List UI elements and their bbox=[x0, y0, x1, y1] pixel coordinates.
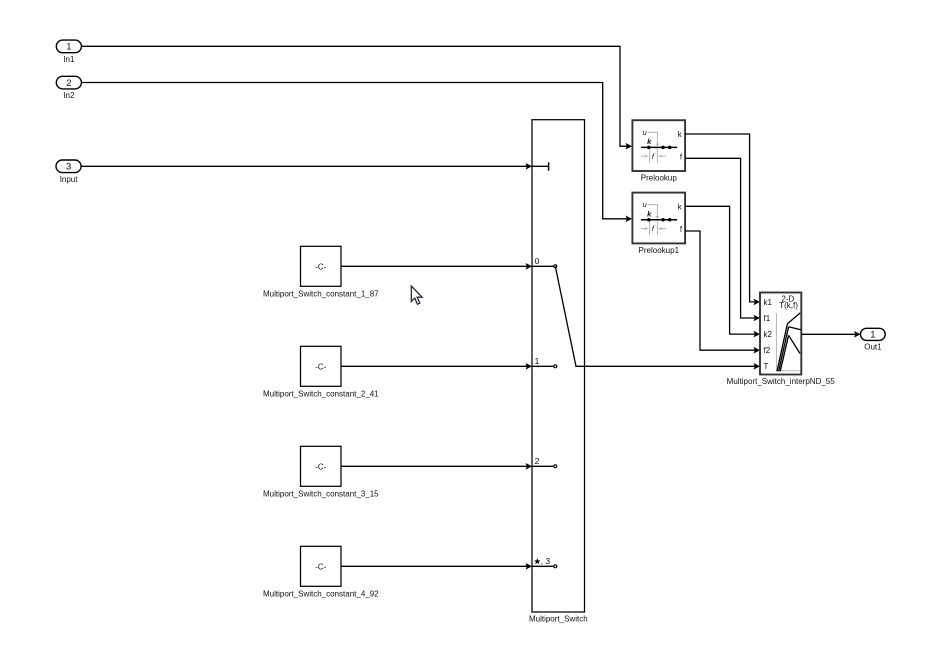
inport Input bbox=[56, 160, 81, 184]
svg-text:3: 3 bbox=[66, 162, 71, 173]
svg-text:f2: f2 bbox=[764, 346, 771, 355]
wire interpND output to Out1 bbox=[801, 331, 860, 338]
constant Multiport_Switch_constant_1_87 bbox=[263, 246, 379, 298]
block Multiport_Switch_interpND_55 bbox=[727, 293, 836, 387]
inport In2 bbox=[56, 76, 81, 100]
svg-text:Input: Input bbox=[60, 175, 79, 184]
block Prelookup bbox=[632, 120, 685, 182]
wire constant3 to switch port 2 bbox=[341, 463, 532, 470]
svg-text:1: 1 bbox=[870, 330, 875, 341]
svg-text:1: 1 bbox=[535, 356, 540, 366]
interpND port labels and title bbox=[764, 294, 799, 371]
svg-text:In2: In2 bbox=[63, 91, 75, 100]
wire Prelookup1 f to interpND f2 bbox=[685, 231, 760, 354]
svg-text:f1: f1 bbox=[764, 314, 771, 323]
svg-text:-C-: -C- bbox=[315, 362, 326, 371]
wire Prelookup f to interpND f1 bbox=[685, 158, 760, 321]
constant Multiport_Switch_constant_3_15 bbox=[263, 446, 379, 498]
inport In1 bbox=[56, 40, 81, 64]
switch data port *,3 marker bbox=[532, 556, 557, 568]
svg-text:In1: In1 bbox=[63, 55, 75, 64]
wire Prelookup k to interpND k1 bbox=[685, 134, 760, 305]
block Multiport_Switch bbox=[529, 120, 588, 624]
svg-text:Multiport_Switch_constant_3_15: Multiport_Switch_constant_3_15 bbox=[263, 489, 379, 498]
svg-text:-C-: -C- bbox=[315, 262, 326, 271]
svg-text:Multiport_Switch_constant_1_87: Multiport_Switch_constant_1_87 bbox=[263, 289, 379, 298]
switch data port 2 marker bbox=[532, 456, 557, 468]
svg-text:1: 1 bbox=[66, 42, 71, 53]
svg-text:Prelookup1: Prelookup1 bbox=[639, 246, 680, 255]
svg-text:-C-: -C- bbox=[315, 562, 326, 571]
switch selection diagonal to output bbox=[555, 266, 584, 366]
svg-text:2: 2 bbox=[66, 78, 71, 89]
svg-text:Prelookup: Prelookup bbox=[641, 174, 678, 183]
svg-text:-C-: -C- bbox=[315, 462, 326, 471]
svg-text:T(k,f): T(k,f) bbox=[779, 301, 798, 310]
svg-text:Out1: Out1 bbox=[864, 343, 882, 352]
wire constant4 to switch port *,3 bbox=[341, 563, 532, 570]
svg-text:0: 0 bbox=[535, 256, 540, 266]
svg-text:Multiport_Switch: Multiport_Switch bbox=[529, 615, 588, 624]
constant Multiport_Switch_constant_4_92 bbox=[263, 546, 379, 598]
mouse cursor bbox=[411, 286, 422, 304]
svg-text:k1: k1 bbox=[764, 298, 773, 307]
svg-text:, 3: , 3 bbox=[541, 556, 551, 566]
svg-text:2: 2 bbox=[535, 456, 540, 466]
wire Multiport_Switch output to interpND T bbox=[585, 363, 761, 370]
interpND icon bbox=[776, 313, 800, 371]
switch data port 0 marker bbox=[532, 256, 557, 268]
Prelookup1 icon bbox=[641, 200, 683, 235]
svg-text:Multiport_Switch_constant_4_92: Multiport_Switch_constant_4_92 bbox=[263, 589, 379, 598]
block Prelookup1 bbox=[632, 193, 685, 255]
wire constant1 to switch port 0 bbox=[341, 263, 532, 270]
wire constant2 to switch port 1 bbox=[341, 363, 532, 370]
switch data port 1 marker bbox=[532, 356, 557, 368]
outport Out1 bbox=[861, 328, 886, 351]
Prelookup icon bbox=[641, 128, 683, 163]
wire Prelookup1 k to interpND k2 bbox=[685, 206, 760, 337]
svg-text:Multiport_Switch_constant_2_41: Multiport_Switch_constant_2_41 bbox=[263, 389, 379, 398]
svg-text:k2: k2 bbox=[764, 330, 773, 339]
wire Input to Multiport_Switch control port bbox=[81, 163, 532, 170]
wire In1 to Prelookup input bbox=[81, 46, 632, 149]
switch control port marker bbox=[532, 162, 549, 170]
svg-text:T: T bbox=[764, 362, 769, 371]
wire In2 to Prelookup1 input bbox=[81, 83, 632, 223]
constant Multiport_Switch_constant_2_41 bbox=[263, 346, 379, 398]
svg-text:Multiport_Switch_interpND_55: Multiport_Switch_interpND_55 bbox=[727, 377, 836, 386]
